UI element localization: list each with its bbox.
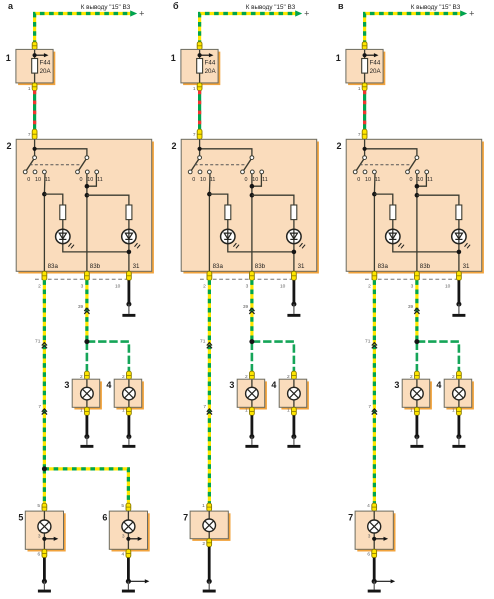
svg-text:5: 5 <box>121 503 124 509</box>
svg-text:11: 11 <box>262 177 268 183</box>
svg-text:83b: 83b <box>420 263 431 270</box>
svg-text:10: 10 <box>115 284 121 290</box>
svg-text:31: 31 <box>133 263 140 270</box>
svg-text:6: 6 <box>102 512 107 522</box>
svg-text:в: в <box>338 1 344 11</box>
svg-text:6: 6 <box>38 551 41 557</box>
svg-text:4: 4 <box>122 551 125 557</box>
svg-text:10: 10 <box>417 177 423 183</box>
svg-text:1: 1 <box>80 408 83 414</box>
svg-text:39: 39 <box>78 304 84 310</box>
svg-text:20A: 20A <box>205 68 217 75</box>
svg-text:0: 0 <box>192 177 195 183</box>
svg-text:83b: 83b <box>255 263 266 270</box>
svg-text:1: 1 <box>28 86 31 92</box>
svg-text:3: 3 <box>246 284 249 290</box>
svg-text:б: б <box>173 1 179 11</box>
svg-text:1: 1 <box>171 53 176 63</box>
svg-text:71: 71 <box>200 338 206 344</box>
svg-text:7: 7 <box>28 132 31 138</box>
svg-text:1: 1 <box>336 53 341 63</box>
svg-text:11: 11 <box>97 177 103 183</box>
svg-text:4: 4 <box>436 380 441 390</box>
svg-text:4: 4 <box>271 380 276 390</box>
svg-text:2: 2 <box>38 284 41 290</box>
svg-text:10: 10 <box>445 284 451 290</box>
svg-text:39: 39 <box>408 304 414 310</box>
svg-text:4: 4 <box>106 380 111 390</box>
svg-text:1: 1 <box>202 503 205 509</box>
svg-text:11: 11 <box>375 177 381 183</box>
svg-text:10: 10 <box>200 177 206 183</box>
svg-text:39: 39 <box>243 304 249 310</box>
svg-text:1: 1 <box>122 408 125 414</box>
svg-text:0: 0 <box>80 177 83 183</box>
svg-text:0: 0 <box>245 177 248 183</box>
svg-text:71: 71 <box>35 338 41 344</box>
svg-text:3: 3 <box>38 534 41 540</box>
svg-text:7: 7 <box>358 132 361 138</box>
svg-text:F44: F44 <box>370 60 381 67</box>
svg-text:К выводу "15" ВЗ: К выводу "15" ВЗ <box>81 4 131 11</box>
svg-text:+: + <box>304 9 309 19</box>
svg-text:2: 2 <box>171 141 176 151</box>
svg-text:7: 7 <box>183 512 188 522</box>
svg-text:83a: 83a <box>48 263 59 270</box>
svg-text:71: 71 <box>365 338 371 344</box>
svg-text:1: 1 <box>410 408 413 414</box>
svg-text:3: 3 <box>81 284 84 290</box>
svg-text:10: 10 <box>280 284 286 290</box>
svg-text:1: 1 <box>193 86 196 92</box>
svg-text:3: 3 <box>122 534 125 540</box>
svg-text:10: 10 <box>365 177 371 183</box>
svg-text:F44: F44 <box>40 60 51 67</box>
svg-text:31: 31 <box>298 263 305 270</box>
svg-text:3: 3 <box>368 534 371 540</box>
svg-text:83b: 83b <box>90 263 101 270</box>
svg-text:1: 1 <box>358 86 361 92</box>
svg-text:11: 11 <box>210 177 216 183</box>
svg-text:+: + <box>139 9 144 19</box>
svg-text:1: 1 <box>245 408 248 414</box>
svg-text:83a: 83a <box>213 263 224 270</box>
svg-text:1: 1 <box>6 53 11 63</box>
svg-text:83a: 83a <box>378 263 389 270</box>
svg-text:3: 3 <box>64 380 69 390</box>
svg-text:7: 7 <box>203 404 206 410</box>
svg-text:3: 3 <box>229 380 234 390</box>
svg-text:К выводу "15" ВЗ: К выводу "15" ВЗ <box>411 4 461 11</box>
svg-text:0: 0 <box>410 177 413 183</box>
svg-text:3: 3 <box>394 380 399 390</box>
svg-text:0: 0 <box>27 177 30 183</box>
svg-text:+: + <box>469 9 474 19</box>
svg-text:10: 10 <box>252 177 258 183</box>
svg-text:F44: F44 <box>205 60 216 67</box>
svg-text:10: 10 <box>35 177 41 183</box>
svg-text:1: 1 <box>287 408 290 414</box>
svg-text:11: 11 <box>427 177 433 183</box>
svg-text:0: 0 <box>357 177 360 183</box>
svg-text:2: 2 <box>202 541 205 547</box>
svg-text:7: 7 <box>193 132 196 138</box>
svg-text:2: 2 <box>368 284 371 290</box>
svg-text:7: 7 <box>38 404 41 410</box>
svg-text:11: 11 <box>45 177 51 183</box>
svg-text:20A: 20A <box>370 68 382 75</box>
svg-text:31: 31 <box>463 263 470 270</box>
svg-text:2: 2 <box>203 284 206 290</box>
svg-text:4: 4 <box>367 503 370 509</box>
svg-text:1: 1 <box>452 408 455 414</box>
svg-text:5: 5 <box>37 503 40 509</box>
svg-text:7: 7 <box>368 404 371 410</box>
svg-text:7: 7 <box>348 512 353 522</box>
svg-text:20A: 20A <box>40 68 52 75</box>
svg-text:2: 2 <box>6 141 11 151</box>
svg-text:3: 3 <box>411 284 414 290</box>
svg-text:10: 10 <box>87 177 93 183</box>
svg-text:5: 5 <box>18 512 23 522</box>
svg-text:К выводу "15" ВЗ: К выводу "15" ВЗ <box>246 4 296 11</box>
svg-text:6: 6 <box>367 551 370 557</box>
svg-text:2: 2 <box>336 141 341 151</box>
